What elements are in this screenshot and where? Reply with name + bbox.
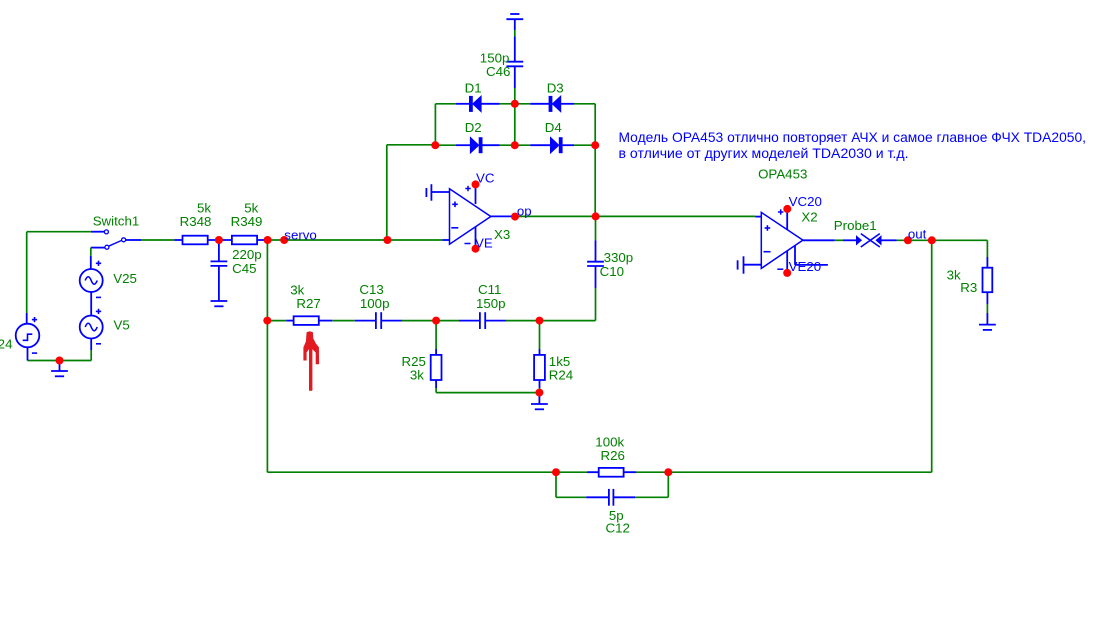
svg-text:VC: VC	[476, 170, 495, 185]
svg-text:R3: R3	[960, 280, 977, 295]
svg-text:150p: 150p	[476, 296, 506, 311]
svg-text:Модель OPA453 отлично повторяе: Модель OPA453 отлично повторяет АЧХ и са…	[619, 129, 1087, 145]
svg-text:C46: C46	[486, 64, 510, 79]
svg-text:C12: C12	[606, 520, 630, 535]
svg-text:VC20: VC20	[789, 194, 822, 209]
svg-text:220p: 220p	[232, 247, 262, 262]
svg-text:C10: C10	[600, 264, 624, 279]
svg-text:R26: R26	[601, 448, 625, 463]
svg-text:в отличие от других моделей TD: в отличие от других моделей TDA2030 и т.…	[619, 145, 909, 161]
svg-text:100p: 100p	[360, 296, 390, 311]
svg-text:V25: V25	[113, 271, 137, 286]
svg-text:X3: X3	[494, 227, 510, 242]
svg-text:Probe1: Probe1	[834, 218, 877, 233]
svg-text:Switch1: Switch1	[93, 213, 140, 228]
svg-text:R27: R27	[296, 296, 320, 311]
svg-text:OPA453: OPA453	[758, 166, 807, 181]
svg-text:out: out	[908, 227, 927, 242]
svg-text:VE: VE	[475, 236, 493, 251]
svg-text:330p: 330p	[604, 250, 634, 265]
svg-text:VE20: VE20	[789, 259, 822, 274]
svg-text:R348: R348	[180, 214, 212, 229]
svg-text:D2: D2	[465, 120, 482, 135]
svg-text:C45: C45	[232, 261, 256, 276]
svg-text:V5: V5	[114, 317, 130, 332]
svg-text:R24: R24	[549, 367, 573, 382]
svg-text:V24: V24	[0, 337, 12, 352]
svg-text:3k: 3k	[947, 267, 961, 282]
svg-text:3k: 3k	[290, 282, 304, 297]
svg-text:op: op	[517, 204, 532, 219]
svg-text:servo: servo	[284, 228, 317, 243]
svg-text:D4: D4	[545, 120, 562, 135]
svg-text:D3: D3	[547, 80, 564, 95]
svg-text:D1: D1	[465, 80, 482, 95]
svg-text:X2: X2	[801, 210, 817, 225]
svg-text:C13: C13	[359, 282, 383, 297]
svg-text:R349: R349	[231, 214, 263, 229]
svg-text:100k: 100k	[595, 434, 624, 449]
svg-text:3k: 3k	[410, 367, 424, 382]
svg-text:C11: C11	[478, 282, 501, 297]
